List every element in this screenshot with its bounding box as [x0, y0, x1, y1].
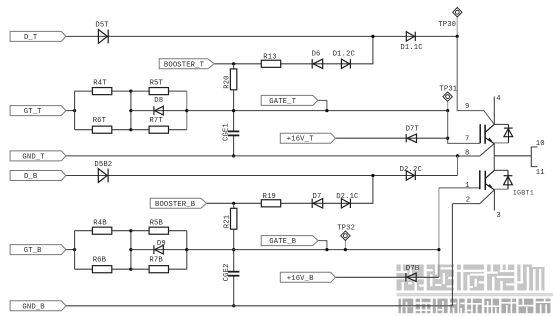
pin 9	[465, 103, 469, 111]
diode D7B	[406, 265, 420, 282]
resistor R13	[261, 54, 280, 68]
pin 1	[465, 182, 469, 190]
svg-text:D6: D6	[312, 51, 321, 59]
wire net BOOSTER_B	[207, 176, 373, 204]
junction GT_T split	[73, 109, 76, 112]
diode D9	[154, 240, 166, 254]
wire GT_B second parallel group	[131, 231, 187, 270]
wire collector sense to pin 9	[457, 36, 494, 124]
diode D1.2C	[333, 51, 356, 69]
wire emitter to midpoint	[493, 144, 495, 171]
wire net +16V_T	[336, 137, 448, 139]
svg-text:GATE_B: GATE_B	[269, 238, 296, 246]
pin 10	[536, 140, 545, 148]
diode D5B2	[94, 161, 112, 182]
svg-text:R7B: R7B	[149, 257, 163, 265]
svg-text:GND_B: GND_B	[22, 303, 45, 311]
capacitor CGE1	[223, 123, 240, 141]
svg-text:R21: R21	[224, 215, 232, 228]
junction CGE2/GND_B	[232, 304, 235, 307]
junction booster_B/D_B	[371, 174, 374, 177]
svg-text:D1.1C: D1.1C	[400, 44, 423, 52]
testpoint TP31	[439, 85, 457, 101]
igbt U-bot emitter diagonal	[485, 184, 494, 190]
wire GT_T first parallel group	[75, 91, 131, 130]
svg-text:CGE2: CGE2	[223, 263, 231, 281]
svg-text:D5T: D5T	[95, 22, 109, 30]
freewheel diode D-bot	[494, 170, 512, 189]
resistor R5B	[149, 219, 168, 234]
svg-text:R6B: R6B	[93, 257, 107, 265]
svg-text:+16V_T: +16V_T	[287, 136, 314, 144]
port flag GND_B	[10, 301, 66, 311]
pin 11	[536, 169, 545, 177]
diode D1.1C	[400, 32, 423, 52]
wire gate down to pin 7	[448, 111, 481, 144]
svg-text:3: 3	[496, 212, 500, 220]
resistor R20	[224, 69, 237, 90]
svg-text:D_T: D_T	[24, 34, 38, 42]
svg-text:11: 11	[536, 169, 545, 177]
svg-text:D5B2: D5B2	[94, 161, 112, 169]
wire gate_B vertical to pin 1 and D7B	[439, 188, 480, 277]
igbt U-top collector rail	[494, 123, 508, 125]
port flag GT_T	[10, 106, 66, 116]
wire GND_B up to pin 2	[452, 190, 494, 306]
port flag GATE_B	[261, 236, 318, 246]
junction D7T clamp	[446, 137, 449, 140]
wire net GND_T	[66, 155, 458, 157]
capacitor CGE2	[223, 263, 240, 281]
diode D7	[312, 193, 323, 208]
igbt U-bot body bar	[484, 171, 486, 190]
diode D2.1C	[336, 193, 359, 208]
wire GATE_T flag jog	[318, 100, 327, 110]
junction gate_B riser	[437, 248, 440, 251]
igbt module label IGBT1	[513, 190, 534, 198]
wire R21/CGE2 vertical	[233, 203, 235, 305]
svg-text:1: 1	[465, 182, 469, 190]
wire net GATE_T	[187, 110, 448, 112]
wire GATE_B flag jog	[318, 241, 327, 250]
wire GT_B first parallel group	[75, 231, 131, 270]
svg-text:R19: R19	[263, 193, 276, 201]
pin 3	[496, 212, 500, 220]
junction R20 top	[232, 62, 235, 65]
diode D7T	[406, 125, 420, 142]
wire net D_T (top desat line)	[66, 35, 457, 37]
svg-text:BOOSTER_T: BOOSTER_T	[164, 61, 205, 69]
svg-text:R4T: R4T	[93, 80, 107, 88]
svg-text:D7T: D7T	[406, 125, 420, 133]
wire net +16V_B	[336, 276, 439, 278]
svg-text:TP32: TP32	[337, 225, 355, 233]
testpoint TP30	[438, 8, 462, 30]
pin 4	[496, 95, 500, 103]
resistor R7T	[149, 117, 168, 133]
resistor R4T	[92, 80, 111, 95]
port flag +16V_B	[280, 272, 335, 282]
svg-text:IGBT1: IGBT1	[513, 190, 534, 198]
svg-text:D2.2C: D2.2C	[400, 166, 423, 174]
junction node T1b	[129, 109, 132, 112]
igbt U-top body bar	[484, 125, 486, 144]
svg-text:R5T: R5T	[150, 80, 164, 88]
svg-text:7: 7	[465, 136, 469, 144]
junction R21 top	[232, 202, 235, 205]
svg-text:GT_T: GT_T	[24, 108, 42, 116]
svg-text:9: 9	[465, 103, 469, 111]
junction GATE_T flag	[325, 109, 328, 112]
resistor R4B	[92, 219, 111, 234]
wire pin 8 connection	[458, 144, 495, 156]
wire net GT_T input	[65, 110, 75, 112]
wire midpoint rail to pins 10/11	[494, 147, 537, 167]
svg-text:8: 8	[465, 149, 469, 157]
svg-text:R20: R20	[224, 75, 232, 88]
igbt U-bot gate bar	[479, 170, 481, 189]
wire TP30 stem	[456, 17, 458, 37]
svg-text:10: 10	[536, 140, 545, 148]
svg-text:D1.2C: D1.2C	[333, 51, 356, 59]
resistor R7B	[149, 257, 168, 273]
svg-text:D8: D8	[154, 97, 163, 105]
junction node B1c	[129, 268, 132, 271]
svg-text:GATE_T: GATE_T	[269, 98, 296, 106]
resistor R5T	[149, 80, 168, 95]
pin 7	[465, 136, 469, 144]
igbt U-bot collector diagonal	[485, 170, 494, 178]
svg-text:D_B: D_B	[24, 173, 38, 181]
svg-text:2: 2	[466, 197, 470, 205]
diode D2.2C	[400, 166, 423, 180]
junction GT_B split	[73, 248, 76, 251]
svg-text:GND_T: GND_T	[22, 153, 45, 161]
port flag GT_B	[10, 245, 66, 255]
igbt U-bot emitter pin 3 lead	[493, 190, 495, 211]
junction GND_T/midpoint	[456, 154, 459, 157]
svg-text:D9: D9	[157, 240, 166, 248]
freewheel diode D-top	[494, 124, 513, 142]
pin 8	[465, 149, 469, 157]
junction gate_B/R21	[232, 248, 235, 251]
svg-text:R7T: R7T	[149, 117, 163, 125]
svg-text:D7B: D7B	[406, 265, 420, 273]
igbt U-top emitter diagonal	[485, 138, 494, 144]
svg-text:TP30: TP30	[438, 21, 456, 29]
svg-text:R4B: R4B	[93, 219, 107, 227]
resistor R6B	[92, 257, 111, 273]
resistor R21	[224, 208, 237, 229]
junction TP30/D_T	[456, 35, 459, 38]
svg-text:GT_B: GT_B	[24, 247, 42, 255]
port flag D_T	[10, 31, 66, 41]
junction node T1a	[129, 90, 132, 93]
svg-text:BOOSTER_B: BOOSTER_B	[155, 201, 196, 209]
igbt U-top collector pin 4 lead	[493, 97, 495, 125]
igbt U-bot collector corner	[494, 169, 508, 171]
junction TP32/gate_B	[344, 248, 347, 251]
wire midpoint drop to D_B line	[457, 156, 459, 176]
junction node B2	[185, 248, 188, 251]
wire R20/CGE1 vertical	[233, 64, 235, 156]
diode D8	[154, 97, 163, 115]
svg-text:+16V_B: +16V_B	[287, 275, 314, 283]
testpoint TP32	[337, 225, 355, 241]
wire net GND_B	[66, 305, 453, 307]
wire net BOOSTER_T	[214, 36, 373, 63]
svg-text:D7: D7	[313, 193, 322, 201]
junction booster_T/D_T	[371, 35, 374, 38]
junction gate/R20	[232, 109, 235, 112]
wire net D_B (bottom desat line)	[66, 175, 458, 177]
port flag BOOSTER_T	[159, 59, 214, 69]
junction CGE1/GND_T	[232, 154, 235, 157]
port flag GND_T	[10, 151, 66, 161]
port flag D_B	[10, 171, 66, 181]
watermark (site logo text, behind schematic)	[397, 265, 553, 314]
igbt U-top collector diagonal	[485, 124, 494, 132]
svg-text:4: 4	[496, 95, 500, 103]
svg-text:D2.1C: D2.1C	[336, 193, 359, 201]
svg-text:R13: R13	[263, 54, 276, 62]
diode D5T	[95, 22, 109, 44]
junction GATE_B flag	[325, 248, 328, 251]
wire GT_T second parallel group	[131, 91, 187, 130]
port flag BOOSTER_B	[150, 198, 206, 208]
wire net GT_B input	[65, 249, 75, 251]
junction node B1a	[129, 229, 132, 232]
svg-text:TP31: TP31	[439, 85, 457, 93]
wire net GATE_B	[187, 249, 439, 251]
svg-text:R6T: R6T	[93, 117, 107, 125]
diode D6	[312, 51, 323, 69]
junction node B1b	[129, 248, 132, 251]
svg-text:CGE1: CGE1	[223, 123, 231, 141]
resistor R6T	[92, 117, 111, 133]
junction node T1c	[129, 128, 132, 131]
wire TP32 stem	[344, 240, 346, 249]
junction TP31/gate	[446, 109, 449, 112]
igbt U-top gate bar	[479, 124, 481, 143]
port flag GATE_T	[261, 95, 318, 105]
port flag +16V_T	[280, 133, 335, 143]
wire TP31 stem	[447, 101, 449, 110]
pin 2	[466, 197, 470, 205]
resistor R19	[261, 193, 280, 207]
svg-text:R5B: R5B	[150, 219, 164, 227]
junction node T2	[185, 109, 188, 112]
